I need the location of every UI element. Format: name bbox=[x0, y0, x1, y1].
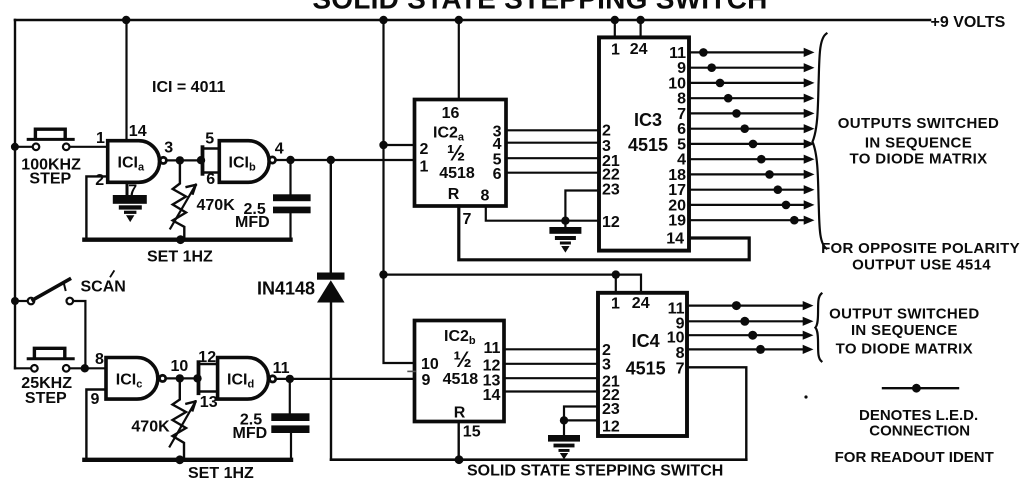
wire: IC2a pin8 to ground node bbox=[486, 206, 566, 221]
svg-text:7: 7 bbox=[463, 211, 472, 228]
pin labels IC1b: 5, 6, 4 bbox=[205, 131, 283, 188]
wire: IC4 pin1 riser bbox=[615, 275, 617, 293]
svg-text:FOR OPPOSITE POLARITY: FOR OPPOSITE POLARITY bbox=[821, 240, 1020, 257]
wire: IC1a pin7 to ground bbox=[126, 182, 129, 196]
svg-text:4: 4 bbox=[275, 140, 284, 157]
wire: IC3 pin24 riser bbox=[639, 20, 641, 37]
nand gate IC1d bbox=[218, 358, 276, 400]
stub near IC2b pin9 bbox=[408, 370, 415, 372]
junction: pin4 / capacitor C1 bbox=[286, 156, 294, 164]
wire: IC2b pin12 to IC4 pin3 bbox=[504, 363, 598, 365]
wire: IC2a pin16 riser bbox=[458, 20, 460, 100]
svg-text:3: 3 bbox=[602, 357, 611, 374]
label SCAN bbox=[81, 271, 126, 295]
svg-text:R: R bbox=[454, 405, 466, 422]
output IC3 pin10 with LED dot bbox=[689, 78, 815, 87]
junction: pin10 / 470K lower bbox=[176, 374, 184, 382]
wire: IC1c pin9 feedback riser bbox=[86, 390, 106, 459]
junction: top bus / power drop bbox=[379, 16, 387, 24]
svg-text:14: 14 bbox=[483, 387, 501, 404]
nand gate IC1a bbox=[108, 141, 167, 183]
svg-text:SCAN: SCAN bbox=[81, 279, 126, 296]
junction: power drop / IC2a pin2 bbox=[379, 141, 387, 149]
wire: IC2a pin6 to IC3 pin22 bbox=[506, 172, 599, 174]
pin labels IC1d: 12, 13, 11 bbox=[198, 349, 289, 411]
junction: SCAN drop / 25KHZ / IC1c pin8 bbox=[81, 364, 89, 372]
nand gate IC1c bbox=[106, 358, 166, 400]
pin labels IC1a: 1, 14, 2, 7, 3 bbox=[95, 123, 173, 199]
svg-text:8: 8 bbox=[481, 187, 490, 204]
ground: IC1a pin7 bbox=[113, 195, 147, 222]
svg-text:6: 6 bbox=[493, 166, 502, 183]
stray mark (period) bbox=[804, 395, 807, 398]
svg-text:470K: 470K bbox=[131, 419, 170, 436]
svg-text:CONNECTION: CONNECTION bbox=[869, 422, 970, 439]
label FOR OPPOSITE POLARITY OUTPUT USE 4514 bbox=[821, 240, 1020, 273]
junction: pin11 / capacitor C2 bbox=[286, 375, 294, 383]
svg-text:11: 11 bbox=[483, 340, 500, 357]
pin labels IC4 right: 11,9,10,8,7 bbox=[667, 301, 685, 378]
wire: left rail bbox=[14, 20, 16, 368]
svg-text:SET 1HZ: SET 1HZ bbox=[188, 465, 254, 482]
junction: top bus / IC2a pin16 riser bbox=[455, 16, 463, 24]
label 25KHZ STEP bbox=[21, 375, 72, 407]
output IC3 pin4 with LED dot bbox=[689, 155, 815, 164]
variable resistor 470K (lower) bbox=[170, 378, 196, 459]
svg-text:MFD: MFD bbox=[235, 214, 270, 231]
IC2b 1/2 4518 bbox=[415, 321, 505, 422]
pin labels IC3 top: 1, 24 bbox=[611, 41, 648, 59]
svg-text:OUTPUT USE 4514: OUTPUT USE 4514 bbox=[852, 256, 991, 273]
wire: IC3 pin14 loop to IC2a pin7 bbox=[459, 206, 749, 260]
svg-text:4518: 4518 bbox=[439, 165, 475, 182]
junction: IC4 pins23,12 bbox=[560, 416, 568, 424]
svg-text:STEP: STEP bbox=[25, 390, 67, 407]
svg-text:8: 8 bbox=[95, 351, 104, 368]
output IC3 pin9 with LED dot bbox=[689, 63, 815, 72]
wire: IC1b input tie (pins 5,6) bbox=[203, 147, 220, 174]
wire: SET 1HZ feedback bus (lower) bbox=[84, 458, 291, 462]
wire: SET 1HZ feedback bus (upper) bbox=[84, 237, 290, 241]
junction: supply line / IC4 pin1 riser bbox=[612, 270, 620, 278]
wire: SCAN pole to 25KHZ junction bbox=[73, 301, 85, 368]
output IC3 pin18 with LED dot bbox=[689, 170, 815, 179]
svg-text:24: 24 bbox=[632, 295, 650, 312]
svg-text:470K: 470K bbox=[197, 197, 236, 214]
wire: IC2b pin11 to IC4 pin2 bbox=[504, 348, 598, 350]
legend: LED connection symbol bbox=[883, 384, 958, 393]
svg-text:12: 12 bbox=[198, 349, 216, 366]
IC4 4515 bbox=[598, 293, 687, 436]
junction: top bus / IC3 pin24 riser bbox=[636, 16, 644, 24]
wire: IC4 pin7 loop to reset bus bbox=[687, 367, 746, 459]
svg-text:6: 6 bbox=[206, 171, 215, 188]
capacitor C2 2.5 MFD bbox=[271, 379, 309, 458]
output IC4 pin9 with LED dot bbox=[687, 317, 814, 326]
wire: +9V top bus bbox=[15, 19, 930, 22]
svg-text:IC4: IC4 bbox=[632, 331, 660, 351]
svg-text:14: 14 bbox=[666, 231, 684, 248]
label C1 2.5 MFD bbox=[235, 201, 270, 231]
diode IN4148 bbox=[317, 160, 345, 460]
svg-text:ICI = 4011: ICI = 4011 bbox=[152, 79, 225, 96]
svg-text:15: 15 bbox=[463, 423, 481, 440]
svg-text:10: 10 bbox=[421, 356, 439, 373]
wire: IC1c output pin10 node bbox=[166, 377, 199, 379]
junction: 470K bottom / feedback bus bbox=[176, 235, 185, 244]
junction: top bus / IC1a pin14 riser bbox=[122, 16, 130, 24]
svg-text:1: 1 bbox=[611, 296, 620, 313]
pushbutton 25KHZ STEP bbox=[15, 348, 108, 371]
junction: top bus / IC3 pin1 riser bbox=[611, 16, 619, 24]
svg-text:5: 5 bbox=[205, 131, 214, 148]
pin labels IC4 top: 1, 24 bbox=[611, 295, 650, 313]
svg-text:12: 12 bbox=[602, 214, 620, 231]
svg-text:IN4148: IN4148 bbox=[257, 278, 315, 298]
svg-text:11: 11 bbox=[273, 360, 290, 377]
wire: bottom reset bus bbox=[331, 458, 746, 461]
svg-text:10: 10 bbox=[667, 330, 685, 347]
label OUTPUTS SWITCHED IN SEQUENCE TO DIODE MATRIX bbox=[838, 115, 999, 168]
output IC3 pin19 with LED dot bbox=[689, 216, 815, 225]
wire: IC2a pin4 to IC3 pin3 bbox=[506, 142, 599, 144]
svg-text:23: 23 bbox=[602, 401, 620, 418]
svg-text:9: 9 bbox=[91, 391, 100, 408]
svg-text:IC3: IC3 bbox=[634, 110, 662, 130]
svg-text:SOLID STATE STEPPING SWITCH: SOLID STATE STEPPING SWITCH bbox=[312, 0, 767, 15]
output IC3 pin6 with LED dot bbox=[689, 124, 815, 133]
junction: pin3 wire / IC1b tie bar bbox=[197, 156, 205, 164]
junction: pin10 wire / IC1d tie bar bbox=[193, 374, 201, 382]
svg-text:7: 7 bbox=[676, 360, 685, 377]
svg-text:1: 1 bbox=[96, 130, 105, 147]
svg-text:R: R bbox=[448, 186, 460, 203]
svg-text:IN SEQUENCE: IN SEQUENCE bbox=[851, 322, 958, 339]
svg-text:STEP: STEP bbox=[29, 171, 71, 188]
svg-text:4515: 4515 bbox=[628, 135, 668, 155]
label 100KHZ STEP bbox=[21, 157, 81, 188]
output IC3 pin5 with LED dot bbox=[689, 139, 815, 148]
variable resistor 470K (upper) bbox=[170, 160, 196, 239]
svg-text:12: 12 bbox=[602, 419, 620, 436]
svg-text:24: 24 bbox=[630, 41, 648, 58]
svg-text:13: 13 bbox=[200, 394, 218, 411]
svg-text:4518: 4518 bbox=[443, 371, 479, 388]
junction: 470K bottom / feedback bus (lower) bbox=[175, 455, 184, 464]
wire: IC1d pin11 output to IC2b pin9 bbox=[276, 378, 415, 380]
pin labels IC3 right: 11,9,10,8,7,6,5,4,18,17,20,19,14 bbox=[666, 45, 686, 248]
wire: IC3 pin23 to ground node bbox=[565, 191, 599, 220]
ground: IC4 pins 23,12 bbox=[548, 420, 580, 459]
svg-text:SET 1HZ: SET 1HZ bbox=[147, 248, 213, 265]
wire: IC2b pin14 to IC4 pin22 bbox=[504, 390, 598, 392]
junction: pin15 / reset bus bbox=[455, 455, 464, 464]
svg-text:2: 2 bbox=[95, 172, 104, 189]
output IC3 pin11 with LED dot bbox=[689, 48, 815, 57]
junction: power drop / IC4 supply line bbox=[379, 270, 387, 278]
svg-text:1: 1 bbox=[611, 42, 620, 59]
junction: IC3 pins23,12 / IC2a pin8 bbox=[561, 217, 569, 225]
svg-text:TO DIODE MATRIX: TO DIODE MATRIX bbox=[836, 341, 973, 358]
IC2a 1/2 4518 bbox=[415, 100, 507, 207]
output IC3 pin20 with LED dot bbox=[689, 200, 815, 209]
brace: IC3 output group bbox=[813, 34, 827, 249]
svg-text:TO DIODE MATRIX: TO DIODE MATRIX bbox=[849, 151, 987, 168]
svg-text:4515: 4515 bbox=[626, 359, 666, 379]
svg-text:½: ½ bbox=[453, 347, 471, 372]
svg-text:9: 9 bbox=[422, 372, 431, 389]
svg-text:19: 19 bbox=[668, 213, 686, 230]
wire: IC1a pin14 riser to +9V bus bbox=[125, 20, 127, 141]
label DENOTES L.E.D. CONNECTION bbox=[859, 407, 978, 440]
wire: supply line to IC4 pins 1,24 bbox=[384, 275, 642, 293]
wire: IC2a pin2 stub bbox=[384, 144, 415, 146]
wire: IC2a pin3 to IC3 pin2 bbox=[506, 129, 599, 131]
wire: IC2a pin5 to IC3 pin21 bbox=[506, 157, 599, 159]
output IC3 pin8 with LED dot bbox=[689, 94, 815, 103]
svg-text:14: 14 bbox=[129, 123, 147, 140]
label OUTPUT SWITCHED IN SEQUENCE TO DIODE MATRIX bbox=[829, 305, 979, 357]
capacitor C1 2.5 MFD bbox=[273, 160, 311, 238]
label C2 2.5 MFD bbox=[233, 412, 268, 442]
svg-text:10: 10 bbox=[171, 358, 189, 375]
svg-text:½: ½ bbox=[447, 141, 465, 166]
wire: IC2b pin15 riser bbox=[458, 422, 460, 460]
wire: IC4 pin12 to ground node bbox=[564, 419, 598, 421]
wire: IC1a output pin3 node bbox=[167, 159, 203, 161]
wire: IC1b pin4 output to IC2a pin1 bbox=[276, 159, 415, 161]
wire: IC1a pin2 feedback riser bbox=[86, 176, 107, 238]
svg-text:IN SEQUENCE: IN SEQUENCE bbox=[865, 135, 972, 152]
svg-text:FOR READOUT IDENT: FOR READOUT IDENT bbox=[835, 449, 994, 466]
svg-text:23: 23 bbox=[602, 182, 620, 199]
svg-text:SOLID STATE STEPPING SWITCH: SOLID STATE STEPPING SWITCH bbox=[467, 463, 723, 480]
output IC4 pin8 with LED dot bbox=[687, 345, 814, 354]
pin labels IC2a: 2,1,3,4,5,6,8,7 bbox=[420, 123, 502, 228]
svg-text:+9 VOLTS: +9 VOLTS bbox=[931, 14, 1006, 31]
pin labels IC2b: 10,9,11,12,13,14,15 bbox=[421, 340, 501, 440]
svg-text:16: 16 bbox=[442, 105, 460, 122]
junction: pin3 / 470K top bbox=[176, 156, 184, 164]
brace: IC4 output group bbox=[815, 294, 821, 362]
wire: IC3 pin12 to ground node bbox=[565, 220, 599, 222]
pin labels IC3 left: 2,3,21,22,23,12 bbox=[602, 123, 620, 231]
svg-text:2: 2 bbox=[420, 141, 429, 158]
wire: IC1d input tie (pins 12,13) bbox=[199, 362, 219, 393]
junction: pin4 / diode branch bbox=[327, 156, 335, 164]
pushbutton 100KHZ STEP bbox=[11, 129, 108, 151]
output IC3 pin17 with LED dot bbox=[689, 185, 815, 194]
svg-text:1: 1 bbox=[420, 158, 429, 175]
ground: IC3 pins 23,12 bbox=[549, 221, 581, 253]
pin labels IC1c: 8, 9, 10 bbox=[91, 351, 189, 408]
wire: IC3 pin1 riser bbox=[614, 20, 616, 37]
pin labels IC4 left: 2,3,21,22,23,12 bbox=[602, 342, 620, 436]
output IC4 pin11 with LED dot bbox=[687, 301, 814, 310]
svg-text:MFD: MFD bbox=[233, 425, 268, 442]
wire: IC4 pin23 to ground node bbox=[564, 407, 598, 420]
nand gate IC1b bbox=[219, 141, 275, 183]
svg-text:DENOTES L.E.D.: DENOTES L.E.D. bbox=[859, 407, 978, 424]
wire: +9V power drop (x=383) bbox=[384, 20, 415, 363]
svg-text:3: 3 bbox=[164, 139, 173, 156]
svg-text:OUTPUT SWITCHED: OUTPUT SWITCHED bbox=[829, 305, 979, 322]
svg-text:OUTPUTS SWITCHED: OUTPUTS SWITCHED bbox=[838, 115, 999, 132]
wire: IC2b pin13 to IC4 pin21 bbox=[504, 377, 598, 379]
output IC3 pin7 with LED dot bbox=[689, 109, 815, 118]
switch SCAN bbox=[11, 279, 73, 305]
IC3 4515 bbox=[599, 37, 689, 250]
output IC4 pin10 with LED dot bbox=[687, 331, 814, 340]
